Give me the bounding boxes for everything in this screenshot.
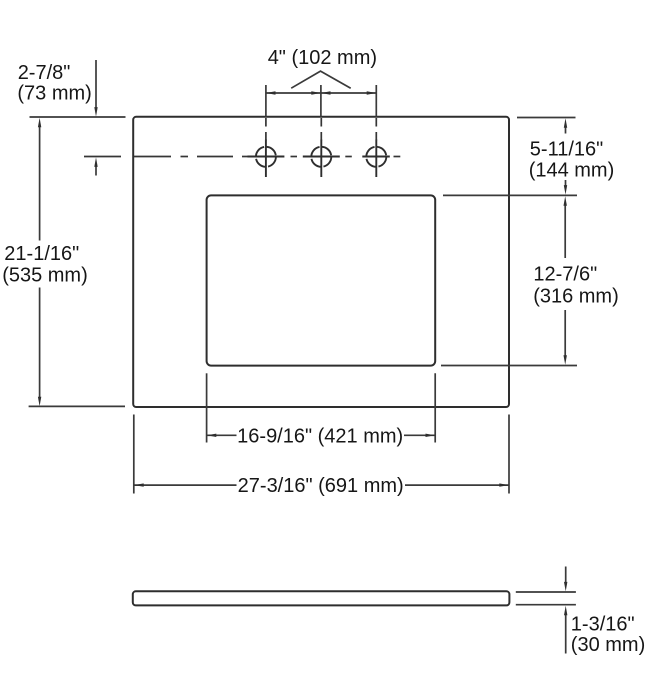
svg-text:4" (102 mm): 4" (102 mm): [268, 47, 377, 69]
svg-text:(535 mm): (535 mm): [2, 265, 88, 287]
svg-text:(73 mm): (73 mm): [17, 82, 91, 104]
svg-text:21-1/16": 21-1/16": [4, 243, 79, 265]
svg-text:16-9/16" (421 mm): 16-9/16" (421 mm): [237, 425, 403, 447]
svg-text:12-7/6": 12-7/6": [533, 263, 597, 285]
svg-text:1-3/16": 1-3/16": [571, 614, 635, 636]
svg-text:(144 mm): (144 mm): [529, 160, 615, 182]
svg-text:(316 mm): (316 mm): [533, 285, 619, 307]
svg-text:(30 mm): (30 mm): [571, 634, 645, 656]
svg-text:2-7/8": 2-7/8": [18, 62, 71, 84]
svg-text:27-3/16" (691 mm): 27-3/16" (691 mm): [238, 475, 404, 497]
svg-text:5-11/16": 5-11/16": [530, 138, 603, 160]
